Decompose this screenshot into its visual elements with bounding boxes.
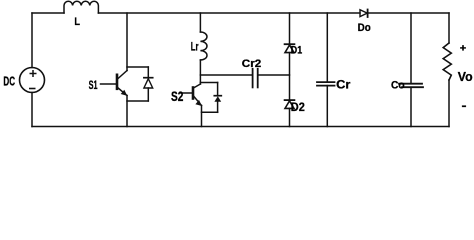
- transistor S2 base lead: [181, 92, 193, 94]
- wire S1 diode loop right lower: [147, 88, 149, 101]
- svg-text:Do: Do: [358, 22, 371, 34]
- transistor S1 emitter slant: [118, 88, 128, 96]
- transistor S1 base lead: [101, 83, 117, 85]
- wire D branch lower: [289, 108, 291, 126]
- wire Lr top lead: [199, 13, 201, 32]
- wire Lr bottom to S2 collector: [199, 60, 201, 84]
- wire S2 diode loop bottom jog: [202, 111, 218, 113]
- wire Cr2 to D node: [259, 74, 290, 76]
- wire D branch middle: [289, 53, 291, 100]
- diode Do triangle: [360, 10, 367, 17]
- svg-text:S1: S1: [89, 78, 98, 92]
- wire S1 emitter vertical: [126, 96, 128, 127]
- svg-text:D2: D2: [291, 100, 305, 114]
- wire S2 diode loop right lower: [217, 102, 219, 113]
- transistor S1 base bar: [116, 75, 119, 89]
- wire load bottom lead: [448, 80, 450, 127]
- svg-text:+: +: [460, 43, 467, 55]
- svg-text:-: -: [462, 101, 467, 113]
- wire DC source top lead: [31, 13, 33, 68]
- wire Cr bottom lead: [326, 86, 328, 127]
- svg-text:S2: S2: [171, 89, 183, 104]
- transistor S1 collector slant: [118, 71, 128, 80]
- transistor S2 emitter slant: [194, 96, 202, 106]
- dc source V1 circle: [20, 68, 45, 93]
- svg-text:Vo: Vo: [458, 69, 473, 84]
- diode D1 triangle: [285, 45, 294, 53]
- transistor S2 emitter arrow: [195, 100, 202, 106]
- diode D2 cathode bar: [285, 99, 295, 101]
- resistor load zigzag: [443, 43, 451, 80]
- diode D1 cathode bar: [285, 43, 295, 45]
- wire Co bottom lead: [410, 87, 412, 126]
- wire S1 diode loop right upper: [147, 67, 149, 78]
- wire top rail middle segment: [98, 12, 360, 14]
- wire S2 emitter vertical: [201, 106, 203, 127]
- diode of S2 cathode bar: [214, 95, 221, 97]
- svg-text:DC: DC: [3, 74, 15, 88]
- dc source minus sign: [29, 88, 36, 90]
- capacitor Cr top plate: [317, 81, 335, 83]
- diode D2 triangle: [285, 101, 294, 109]
- wire S1 diode loop top: [127, 66, 148, 68]
- capacitor Co bottom plate: [402, 86, 423, 88]
- wire Co top lead: [410, 13, 412, 84]
- inductor L: [64, 1, 98, 13]
- wire top rail right segment: [368, 12, 449, 14]
- wire DC source bottom lead: [31, 93, 33, 127]
- svg-text:Co: Co: [391, 80, 405, 92]
- transistor S1 emitter arrow: [121, 90, 128, 96]
- wire node to Cr2: [200, 74, 251, 76]
- diode of S1 cathode bar: [144, 77, 153, 79]
- svg-text:L: L: [74, 16, 80, 28]
- wire S1 collector vertical: [126, 13, 128, 71]
- capacitor Cr bottom plate: [317, 85, 335, 87]
- svg-text:Cr2: Cr2: [242, 58, 261, 70]
- wire Cr top lead: [326, 13, 328, 82]
- capacitor Cr2 right plate: [257, 69, 259, 88]
- diode of S1 triangle: [144, 79, 153, 88]
- wire S2 diode loop top: [200, 82, 217, 84]
- wire load top lead: [448, 13, 450, 43]
- wire bottom rail: [32, 126, 449, 128]
- inductor Lr: [200, 32, 207, 60]
- capacitor Co top plate: [399, 83, 422, 85]
- wire S1 diode loop bottom: [127, 100, 148, 102]
- diode Do cathode bar: [367, 10, 369, 18]
- svg-text:Lr: Lr: [191, 40, 199, 54]
- diode of S2 filled triangle: [214, 96, 221, 102]
- diode D1 D2 branch vertical upper: [289, 13, 291, 44]
- dc source plus sign: [30, 70, 37, 77]
- transistor S2 collector slant: [194, 84, 201, 88]
- svg-text:D1: D1: [291, 44, 302, 56]
- wire S2 diode loop right upper: [217, 83, 219, 96]
- capacitor Cr2 left plate: [252, 69, 254, 88]
- transistor S2 base bar: [192, 88, 195, 99]
- svg-text:Cr: Cr: [336, 78, 350, 92]
- wire top rail left segment: [32, 12, 64, 14]
